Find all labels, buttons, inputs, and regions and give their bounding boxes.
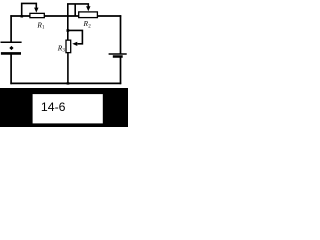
wire right lower <box>120 58 122 85</box>
wire left upper <box>10 15 12 42</box>
wire rheostat R2 wiper loop <box>68 4 89 16</box>
junction R3 lead/bottom wire <box>67 82 70 84</box>
junction R1 wiper on wire <box>21 15 24 17</box>
battery B1 dot <box>9 46 13 50</box>
svg-text:14-6: 14-6 <box>41 100 66 114</box>
battery B1 plate short <box>1 52 21 55</box>
caption panel <box>0 88 128 127</box>
wire right upper <box>120 15 122 53</box>
wire top <box>10 15 121 17</box>
wire R2 left terminal riser <box>74 4 76 17</box>
wire bottom <box>10 82 121 84</box>
battery B2 plate long <box>109 53 127 55</box>
junction node wiper/vertical <box>67 29 70 32</box>
svg-text:1: 1 <box>42 26 45 31</box>
resistor R2 body <box>79 12 98 18</box>
wire R3 wiper loop <box>68 30 83 43</box>
battery B1 plate long <box>1 41 22 43</box>
resistor R3 body <box>66 40 71 53</box>
wire rheostat R1 wiper loop <box>22 3 37 16</box>
arrow R2 wiper <box>86 6 90 11</box>
caption box <box>33 94 103 123</box>
wire R3 lower lead <box>67 53 69 85</box>
battery B2 plate short <box>113 55 123 58</box>
arrow R3 wiper <box>72 42 77 46</box>
arrow R1 wiper <box>34 8 38 13</box>
svg-text:2: 2 <box>88 24 91 29</box>
resistor R1 body <box>30 13 44 17</box>
wire left lower <box>10 54 12 84</box>
node A junction vertical R3/top wire <box>67 16 69 41</box>
svg-text:3: 3 <box>62 49 65 54</box>
